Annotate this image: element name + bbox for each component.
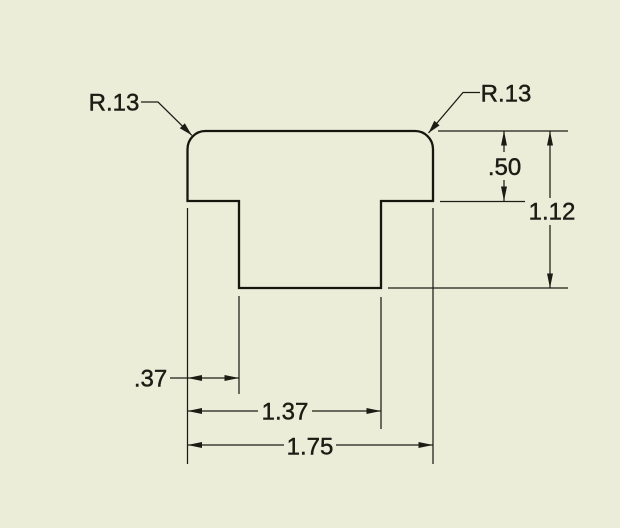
dimension 1.37 (horizontal, y=411, from x=187.5 to x=381) [188,399,382,426]
svg-text:R.13: R.13 [89,90,140,117]
svg-text:.50: .50 [488,154,521,181]
extension line stem right (x=381) [380,297,382,429]
dimension 1.75 (horizontal, y=445, from x=187.5 to x=433) [188,433,434,460]
leader R.13 right (label + leader to top-right fillet) [429,80,532,133]
svg-text:1.75: 1.75 [287,433,334,460]
dimension .50 (vertical, x=504, from y=131 to y=201) [488,131,521,201]
svg-text:.37: .37 [134,366,167,393]
extension line bottom right (from stem bottom y=288) [388,287,568,289]
dimension .37 (horizontal, y=378, from x=187.5 to x=239, text leader to left) [134,366,239,393]
dimension 1.12 (vertical, x=550, from y=131 to y=288) [529,131,576,288]
leader R.13 left (label + leader to top-left fillet) [89,90,192,136]
svg-text:1.12: 1.12 [529,199,576,226]
svg-text:R.13: R.13 [481,80,532,107]
svg-text:1.37: 1.37 [262,399,309,426]
extension line right (from right edge x=433) [432,208,434,464]
part outline (T-shaped cross section with R.13 fillets) [188,131,434,288]
extension line stem left (x=239) [238,296,240,394]
extension line shoulder right (y=201) [440,201,525,203]
extension line top right (from top edge y=131) [438,130,568,132]
extension line left (from left edge x=187.5) [187,208,189,464]
